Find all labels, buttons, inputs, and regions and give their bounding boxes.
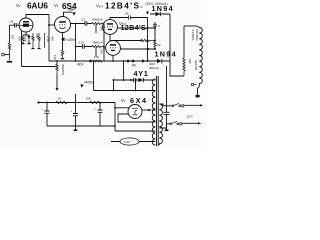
wire V1 cathode drop [23,32,29,35]
switch SW1 [172,105,174,107]
svg-text:V3,4: V3,4 [96,4,103,9]
label V5,6 12B4's x4 [119,21,149,32]
diode D3 4Y1 [139,78,144,82]
wire grid column x9.5 [9,25,11,43]
rail B+ y90.5 [94,90,153,92]
ground bus y126 [47,125,115,127]
wire B+ horizontal y23.5 [70,21,92,25]
svg-text:0.1: 0.1 [82,17,86,21]
tube V4 12B4 envelope [106,41,121,56]
power transformer T2 core [157,76,159,146]
wire V3 screen row y28 [117,27,155,29]
svg-text:.05: .05 [125,12,129,16]
svg-text:12B4'S: 12B4'S [105,2,140,11]
svg-text:+400V: +400V [84,81,95,85]
tube V4 plate [110,44,116,46]
resistor R3 cathode zigzag [22,35,24,43]
ground R7 [38,48,41,49]
tube V2 plate [59,21,66,23]
heater label 6.3V [120,138,139,145]
tube V1 plate [23,21,29,23]
rail supply lower y102.5 [39,102,116,104]
svg-text:V7: V7 [121,98,126,103]
wire bias drop x123.5 [123,61,125,80]
wire input to grid column [4,54,9,56]
svg-text:117V: 117V [187,115,193,119]
resistor R13 360 ohm 7W column x57 [56,61,58,64]
node column x75.5 upper [75,24,77,62]
T2 primary winding right [159,104,162,145]
svg-text:V1: V1 [16,3,21,8]
wire V2 grid [49,24,55,26]
ground R6 [32,48,35,49]
label V1 6AU6 [16,2,48,11]
bias row C y80 [114,79,134,81]
svg-text:200V: 200V [69,8,76,12]
svg-text:1N94: 1N94 [155,50,177,59]
capacitor C7 electrolytic [73,94,78,126]
wire ladder x147.5 [147,18,149,62]
wire V1 plate riser [26,15,49,19]
svg-text:5.6K: 5.6K [23,36,27,42]
diode D2 1N94 on bias rail [157,59,162,63]
label V2 6S4 [54,2,77,12]
capacitor C2 cathode bypass [28,36,31,40]
resistor R12 15K on bias rail [94,60,103,62]
svg-text:.02: .02 [10,20,14,24]
resistor R19 grid stopper lower [95,48,97,57]
T1 secondary terminal [191,83,193,85]
node V2 grid junction [48,24,50,26]
wire 6X4 heater loop [118,114,153,122]
T2 HV secondary winding left [152,79,155,145]
svg-text:15K: 15K [100,26,104,31]
svg-text:1.5K: 1.5K [46,36,50,42]
wire ladder x155 with resistor [154,28,156,42]
svg-text:330: 330 [167,50,171,55]
tube V2 6S4 envelope [55,17,71,33]
tube V7 plates [132,108,138,114]
diode D1 1N94 [150,13,170,15]
svg-text:6.3V: 6.3V [124,140,130,144]
wire heater row [111,141,153,143]
ground filter [75,126,77,130]
ground V1 cathode [22,43,31,44]
arrow marker on bias rail [88,59,92,63]
ground V2 cathode [61,58,64,59]
capacitor C12 line filter column [164,66,170,130]
tube V1 grid line [19,25,32,27]
label 1N94 mid with rating [149,50,177,70]
svg-text:SEC 8Ω: SEC 8Ω [194,60,198,70]
svg-text:-80V: -80V [77,63,85,67]
svg-text:+100V: +100V [65,38,76,42]
wire AC line bottom with arrow [182,122,199,124]
tube V1 grid block [23,24,29,27]
label 1N94 top with rating [146,2,174,13]
svg-text:12K: 12K [53,55,57,60]
bias rail y61 [49,60,157,62]
resistor R7 column x39 [38,33,40,48]
resistor R9 V2 cathode [61,50,63,58]
svg-text:6AU6: 6AU6 [27,2,48,11]
svg-text:6X4: 6X4 [130,96,148,105]
resistor R18 grid stopper upper [95,25,97,34]
tube V2 cathode [60,27,66,28]
capacitor C1 input coupling [10,23,20,27]
svg-text:800Ω×4: 800Ω×4 [93,17,103,21]
wire supply corner x115 [114,103,116,132]
svg-text:360Ω7W: 360Ω7W [61,64,65,75]
tube V7 cathode [133,114,138,116]
wire V2 cathode drop [62,33,64,50]
svg-text:47K: 47K [50,36,54,41]
wire screen feed x93.5 [93,61,95,91]
wire V4 screen row y49 [121,48,156,50]
capacitor C11 on row C [134,78,139,82]
tube V3 plate [107,23,113,25]
tube V3 grid dots [107,26,108,27]
capacitor C8 electrolytic [98,103,103,127]
arrow marker bias feed [142,59,146,63]
svg-text:47K: 47K [18,36,22,41]
resistor R1 1M grid [8,43,10,61]
wire T2 primary bottom to switch [159,124,170,128]
output transformer T1 top lead [184,25,197,27]
tube V4 grid dots [110,47,111,48]
svg-text:780Ω×4: 780Ω×4 [93,40,103,44]
svg-text:12B4'S: 12B4'S [121,23,147,32]
arrow marker 200V [72,12,75,15]
resistor R6 column x33 [32,33,34,48]
wire V2 plate riser [64,12,73,16]
resistor R10 800 ohm x4 [92,22,104,24]
wire row C taps down to rail [114,80,136,91]
AC terminal bottom [180,123,182,125]
svg-text:PRI 6600: PRI 6600 [195,29,199,41]
capacitor C6 electrolytic [45,103,50,127]
wire lower coupling y46.5 [76,44,93,48]
wire V4 cathode drop [112,55,114,61]
wire AC line top with arrow [184,104,201,106]
grid feed column x104 [103,24,105,62]
tube V1 6AU6 envelope [19,18,33,32]
junction arrow to diode line [146,12,149,15]
switch SW2 [170,123,172,125]
wire feedback horizontal y66.5 [22,66,58,68]
ground line filter [165,130,169,132]
svg-text:50: 50 [157,43,161,47]
svg-text:180: 180 [188,59,192,64]
wire 6X4 cathode takeoff [115,107,130,109]
tube V3 12B4 envelope [103,20,118,35]
node +100V [61,37,65,41]
svg-text:-5V: -5V [131,64,137,68]
label V7 6X4 [121,96,148,105]
svg-text:0.15: 0.15 [79,40,85,44]
resistor R17 column x184 [183,26,185,58]
svg-text:4Y1: 4Y1 [134,69,149,78]
node feedback column x21.5 [21,31,23,67]
svg-text:1N94: 1N94 [152,4,174,13]
tube V3 cathode [108,29,112,30]
output transformer T1 winding [197,26,202,87]
resistor R11 780 ohm x4 [92,45,104,47]
T1 bottom lead to chassis [198,87,200,95]
resistor R15 1K filter [56,101,67,103]
resistor R16 10 ohm [141,39,155,41]
wire plate column x49 [48,15,50,62]
wire bottom bus y131 [115,130,153,132]
input terminal J1 [2,53,5,56]
svg-text:10K: 10K [86,97,91,101]
AC terminal top [182,105,184,107]
wire V4 plate row y40.5 [110,34,141,40]
connector circles on bias rail [127,60,129,62]
tube V7 6X4 envelope [128,105,142,119]
svg-text:1K: 1K [58,97,62,101]
svg-text:15K: 15K [94,55,99,59]
svg-text:1M: 1M [11,35,15,40]
resistor R14 10K filter [90,101,101,103]
wire T2 primary top to switch [159,104,172,106]
ground input [7,61,12,63]
tube V4 cathode [111,50,115,51]
wire V3 plate riser and top rail [110,18,148,20]
tube V2 grid dots [59,24,60,25]
svg-text:450mA): 450mA) [149,66,159,70]
svg-text:15K: 15K [100,49,104,54]
node +400V [81,84,84,88]
wire 6X4 plate to transformer [142,109,149,111]
svg-text:4-12B4'S: 4-12B4'S [191,29,195,41]
capacitor C13 top x155 [153,22,157,28]
svg-text:V2: V2 [54,3,59,8]
capacitor C9 on plate rail [129,15,131,19]
wire T2 taps left [152,80,156,142]
label V3,4 12B4's [96,2,143,11]
wire diode column x170 [170,14,184,76]
